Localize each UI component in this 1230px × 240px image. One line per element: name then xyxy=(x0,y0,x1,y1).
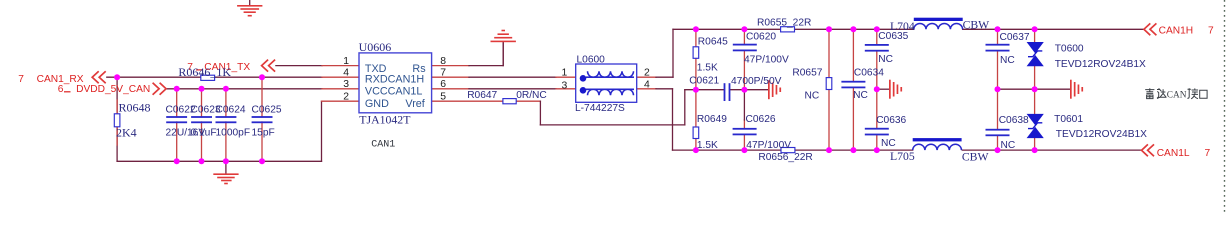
wire L0600 pin4 to CANL rail xyxy=(637,89,673,150)
svg-text:TEVD12ROV24B1X: TEVD12ROV24B1X xyxy=(1055,59,1146,70)
TVS diode T0600 xyxy=(1027,42,1044,66)
svg-text:L-744227S: L-744227S xyxy=(575,103,625,114)
label capacitor C0620 value 47P/100V xyxy=(744,31,789,65)
svg-text:CAN1H: CAN1H xyxy=(388,74,425,86)
svg-text:NC: NC xyxy=(878,54,893,65)
wire split-termination center line xyxy=(685,89,769,91)
svg-text:15pF: 15pF xyxy=(252,127,275,138)
resistor R0645 body xyxy=(693,47,699,59)
capacitor C0635 plates xyxy=(865,44,889,52)
wire TVS column xyxy=(1034,29,1036,150)
common-mode choke L0600 box xyxy=(576,64,637,102)
label CAN1_TX net name xyxy=(187,62,250,73)
capacitor C0634 plates xyxy=(841,81,865,89)
svg-text:4: 4 xyxy=(644,80,650,91)
wire R0645 R0649 column xyxy=(695,29,697,150)
label CAN1L net name xyxy=(1157,148,1211,159)
wire left GND rail xyxy=(117,160,321,162)
svg-text:C0636: C0636 xyxy=(876,115,906,126)
label DVDD_5V_CAN net name xyxy=(58,84,150,95)
wire CAN1_RX net xyxy=(107,76,359,78)
wire Rs net to ground xyxy=(432,43,504,66)
svg-text:R0657: R0657 xyxy=(792,67,822,78)
svg-text:C0625: C0625 xyxy=(252,104,282,115)
svg-text:CAN1: CAN1 xyxy=(371,140,395,151)
label capacitor C0621 value 4700P/50V xyxy=(689,75,781,87)
svg-text:VCC: VCC xyxy=(365,85,388,97)
capacitor C0621 plates xyxy=(724,83,731,101)
label L0600 pin numbers xyxy=(562,68,650,92)
label capacitor C0624 value 1000pF xyxy=(216,104,251,138)
svg-text:R0645: R0645 xyxy=(698,37,728,48)
capacitor C0620 plates xyxy=(733,44,757,52)
wire Vref net through R0647 xyxy=(432,90,685,125)
svg-text:CAN1L: CAN1L xyxy=(1157,148,1190,159)
svg-text:1: 1 xyxy=(562,68,568,79)
svg-text:0.1uF: 0.1uF xyxy=(191,127,217,138)
svg-text:8: 8 xyxy=(440,56,446,67)
svg-text:L705: L705 xyxy=(890,150,915,163)
svg-text:CAN1H: CAN1H xyxy=(1159,26,1194,37)
wire CAN1_TX net xyxy=(276,65,359,67)
page border dashed right edge xyxy=(1224,0,1226,215)
connector CAN1_TX sheet entry chevron xyxy=(262,60,276,72)
svg-text:C0637: C0637 xyxy=(1000,32,1030,43)
label U0606 pin numbers xyxy=(343,56,446,103)
svg-text:NC: NC xyxy=(1000,55,1015,66)
wire C0634 column xyxy=(852,29,854,150)
ground inverted on Rs pin xyxy=(491,30,516,66)
label capacitor C0638 NC xyxy=(999,115,1029,151)
label resistor R0647 value 0R/NC xyxy=(467,90,547,101)
capacitor C0622 plates xyxy=(166,116,187,123)
svg-text:CAN: CAN xyxy=(1167,91,1187,101)
svg-text:CBW: CBW xyxy=(962,151,990,164)
svg-text:L704: L704 xyxy=(890,20,915,33)
wire C0622 leads xyxy=(176,89,178,162)
wire C0637 C0638 column xyxy=(997,29,999,150)
label inductor L704 CBW xyxy=(890,19,990,33)
inductor L704 ferrite bead xyxy=(914,18,963,30)
capacitor C0626 plates xyxy=(733,128,757,135)
wire CANH row U0606 to L0600 xyxy=(432,76,576,78)
label capacitor C0622 value 22U/16V xyxy=(166,104,206,138)
label TVS T0601 part TEVD12ROV24B1X xyxy=(1054,114,1147,140)
page ref tick after 7 TX xyxy=(196,69,203,71)
label capacitor C0637 NC xyxy=(1000,32,1030,66)
capacitor C0624 plates xyxy=(216,116,237,123)
connector CAN1H sheet entry chevron xyxy=(1144,23,1157,35)
svg-text:3: 3 xyxy=(343,79,349,90)
label CAN1H net name xyxy=(1159,26,1214,37)
svg-text:NC: NC xyxy=(853,90,868,101)
label capacitor C0634 NC xyxy=(853,67,884,101)
resistor R0648 body xyxy=(114,114,120,127)
capacitor C0623 plates xyxy=(191,116,212,123)
capacitor C0638 plates xyxy=(986,129,1010,136)
label resistor R0645 value 1.5K xyxy=(697,37,728,74)
svg-text:R0655_22R: R0655_22R xyxy=(757,18,811,29)
capacitor C0625 plates xyxy=(252,116,273,123)
wire C0620 C0626 column xyxy=(743,29,745,150)
svg-text:C0620: C0620 xyxy=(746,31,776,42)
svg-text:7: 7 xyxy=(1208,26,1214,37)
svg-text:C0621: C0621 xyxy=(689,75,719,86)
svg-text:NC: NC xyxy=(1001,140,1016,151)
svg-text:C0626: C0626 xyxy=(746,114,776,125)
svg-text:R0646_1K: R0646_1K xyxy=(178,65,231,79)
wire CANH top rail xyxy=(673,28,1144,30)
svg-text:2K4: 2K4 xyxy=(116,126,137,140)
svg-text:0R/NC: 0R/NC xyxy=(516,90,547,101)
ground sideways on C0635 C0636 midpoint xyxy=(889,80,902,99)
resistor R0649 body xyxy=(693,127,699,139)
wire CANL bottom rail xyxy=(673,149,1142,151)
wire C0625 leads xyxy=(261,77,263,161)
svg-text:47P/100V: 47P/100V xyxy=(744,54,789,65)
svg-text:R0649: R0649 xyxy=(697,114,727,125)
svg-text:1.5K: 1.5K xyxy=(697,62,718,73)
label TVS T0600 part TEVD12ROV24B1X xyxy=(1055,44,1146,70)
wire U0606 GND pin2 riser xyxy=(322,101,360,161)
svg-text:47P/100V: 47P/100V xyxy=(746,140,791,151)
wire center to C0626 xyxy=(743,90,745,120)
node junction dots xyxy=(114,26,1038,164)
svg-text:Vref: Vref xyxy=(405,98,425,110)
svg-text:4: 4 xyxy=(343,68,349,79)
wire C0623 leads xyxy=(201,89,203,162)
capacitor C0636 plates xyxy=(865,128,889,136)
svg-text:7: 7 xyxy=(1205,148,1211,159)
page ref tick after 6 xyxy=(64,91,71,93)
label CAN1_RX net name xyxy=(18,74,83,85)
wire L0600 pin2 to CANH rail xyxy=(637,29,673,77)
connector CAN1_RX sheet entry chevron xyxy=(92,71,106,83)
svg-text:CBW: CBW xyxy=(963,19,991,32)
ground top-left xyxy=(237,0,262,17)
connector DVDD_5V_CAN sheet entry chevron xyxy=(153,83,167,95)
svg-text:R0648: R0648 xyxy=(119,101,151,115)
label capacitor C0626 value 47P/100V xyxy=(746,114,792,151)
svg-text:T0601: T0601 xyxy=(1054,114,1083,125)
label capacitor C0635 NC xyxy=(878,31,908,65)
inductor L705 ferrite bead xyxy=(913,138,962,150)
label choke L0600 xyxy=(575,55,625,114)
wire C0624 leads xyxy=(225,89,227,162)
svg-text:L0600: L0600 xyxy=(577,55,606,66)
wire C0635 C0636 midpoint ground tap xyxy=(877,88,890,90)
label U0606 pin names xyxy=(365,63,426,110)
svg-text:T0600: T0600 xyxy=(1055,44,1084,55)
label resistor R0649 value 1.5K xyxy=(697,114,727,151)
wire CANL row U0606 to L0600 xyxy=(432,88,576,90)
connector CAN1L sheet entry chevron xyxy=(1142,144,1155,156)
svg-text:1.5K: 1.5K xyxy=(697,140,718,151)
svg-text:GND: GND xyxy=(365,98,389,110)
label capacitor C0623 value 0.1uF xyxy=(191,104,221,138)
svg-text:NC: NC xyxy=(805,91,820,102)
label inductor L705 CBW xyxy=(890,150,989,164)
ground sideways on C0621 xyxy=(768,80,781,99)
svg-text:4700P/50V: 4700P/50V xyxy=(731,76,782,87)
resistor R0657 body xyxy=(826,78,832,90)
resistor R0647 body xyxy=(503,99,516,104)
svg-text:7: 7 xyxy=(440,68,446,79)
resistor R0646 body xyxy=(201,75,215,80)
label radar CAN interface chinese text xyxy=(1145,88,1207,99)
ground sideways on TVS midpoint xyxy=(1070,80,1083,99)
label capacitor C0625 value 15pF xyxy=(252,104,282,138)
resistor R0655 body xyxy=(781,27,795,32)
wire C0635 C0636 column xyxy=(876,29,878,150)
label capacitor C0636 NC xyxy=(876,115,906,149)
svg-text:TEVD12ROV24B1X: TEVD12ROV24B1X xyxy=(1056,129,1147,140)
svg-text:6: 6 xyxy=(58,84,64,95)
svg-text:R0647: R0647 xyxy=(467,90,497,101)
wire R0657 column xyxy=(828,29,830,150)
svg-text:7: 7 xyxy=(18,74,24,85)
wire DVDD_5V_CAN rail xyxy=(166,88,359,90)
svg-text:3: 3 xyxy=(562,80,568,91)
svg-text:6: 6 xyxy=(440,79,446,90)
svg-text:TJA1042T: TJA1042T xyxy=(359,113,411,127)
svg-text:RXD: RXD xyxy=(365,74,388,86)
svg-text:CAN1L: CAN1L xyxy=(388,85,423,97)
svg-text:NC: NC xyxy=(881,138,896,149)
svg-text:C0638: C0638 xyxy=(999,115,1029,126)
svg-text:2: 2 xyxy=(343,92,349,103)
wire R0648 column xyxy=(116,77,118,161)
wire TVS midpoint line to ground xyxy=(998,88,1071,90)
TVS diode T0601 xyxy=(1027,114,1044,138)
label resistor R0657 NC xyxy=(792,67,822,101)
svg-text:2: 2 xyxy=(644,68,650,79)
svg-text:DVDD_5V_CAN: DVDD_5V_CAN xyxy=(76,84,150,95)
label resistor R0648 xyxy=(116,101,151,140)
capacitor C0637 plates xyxy=(986,44,1010,52)
svg-text:C0634: C0634 xyxy=(854,67,884,78)
svg-text:1: 1 xyxy=(343,56,349,67)
svg-text:5: 5 xyxy=(440,92,446,103)
ground bottom-left rail xyxy=(213,161,238,184)
svg-text:C0624: C0624 xyxy=(216,104,246,115)
svg-text:R0656_22R: R0656_22R xyxy=(758,152,812,163)
op-amp U0606 IC box xyxy=(359,53,432,113)
svg-text:U0606: U0606 xyxy=(359,40,392,54)
svg-text:1000pF: 1000pF xyxy=(216,127,251,138)
resistor R0656 body xyxy=(781,148,795,153)
